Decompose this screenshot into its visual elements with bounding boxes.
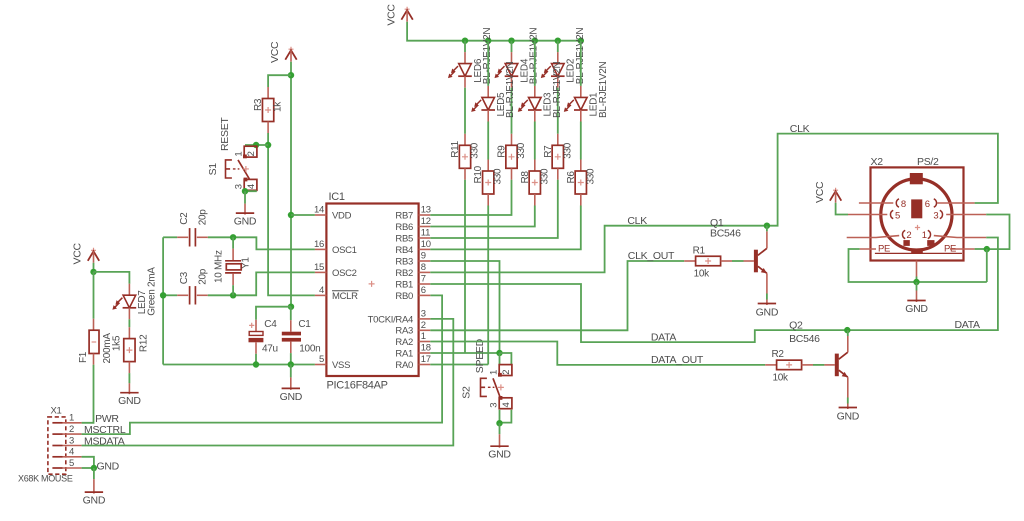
junction LED rail — [578, 38, 584, 44]
svg-text:RB0: RB0 — [395, 291, 413, 302]
svg-text:GND: GND — [83, 495, 106, 507]
wire rail to LED2 — [557, 41, 559, 52]
svg-text:100n: 100n — [299, 344, 320, 355]
junction S1 pin2 — [253, 142, 259, 148]
pin R2 right — [802, 364, 813, 366]
wire VCC rail for LEDs — [407, 22, 581, 41]
svg-text:R10: R10 — [473, 165, 484, 183]
wire VDD rail down to C1 — [290, 215, 292, 307]
transistor Q1 — [754, 248, 767, 273]
svg-text:GND: GND — [234, 216, 257, 228]
wire CLK_OUT: RA3 to R1 — [430, 261, 684, 330]
pin LED2 anode — [557, 52, 559, 64]
svg-text:8: 8 — [421, 262, 426, 273]
svg-text:10k: 10k — [773, 372, 790, 383]
junction shield — [984, 246, 990, 252]
pin 14 VDD — [314, 205, 352, 222]
svg-text:R6: R6 — [566, 171, 577, 184]
resistor R12 — [112, 334, 150, 362]
svg-text:5: 5 — [895, 210, 900, 221]
pin R3 top — [267, 87, 269, 99]
svg-text:20p: 20p — [198, 209, 209, 226]
resistor R3 — [253, 98, 284, 121]
junction C1/C4 — [288, 304, 294, 310]
svg-text:1: 1 — [421, 331, 426, 342]
svg-text:Q2: Q2 — [789, 320, 803, 332]
svg-text:X1: X1 — [51, 406, 62, 417]
junction C1/ground — [288, 361, 294, 367]
wire rail to LED5 — [487, 41, 489, 86]
ground below R12 — [118, 383, 141, 407]
pin LED7 anode — [128, 284, 130, 296]
svg-text:BL-RJE1V2N: BL-RJE1V2N — [505, 61, 516, 118]
svg-text:11: 11 — [421, 228, 430, 239]
pin F1 top — [93, 319, 95, 331]
junction shield ground — [913, 279, 919, 285]
pin R11 top — [464, 134, 466, 146]
pin LED3 cathode — [534, 110, 536, 122]
pin R1 right — [721, 260, 732, 262]
pin R9 top — [511, 134, 513, 146]
pin X2-5 — [848, 210, 900, 221]
wire LED2 to R7 — [557, 88, 559, 134]
pin Q2 base — [824, 364, 834, 366]
svg-text:BL-RJE1V2N: BL-RJE1V2N — [552, 61, 563, 118]
pin R10 top — [487, 160, 489, 172]
wire C4 to ground row — [255, 354, 257, 365]
junction R3/S1 — [265, 142, 271, 148]
svg-text:4: 4 — [69, 447, 74, 458]
wire F1 to X1 pin1 (PWR) — [82, 365, 94, 423]
svg-text:RB5: RB5 — [395, 233, 413, 244]
svg-text:R8: R8 — [520, 171, 531, 184]
svg-text:Y1: Y1 — [241, 257, 252, 269]
pin 18 RA1 — [395, 343, 430, 360]
pin X1-4 — [52, 447, 81, 458]
svg-text:VCC: VCC — [269, 41, 281, 63]
pin LED1 cathode — [580, 110, 582, 122]
svg-text:CLK: CLK — [627, 215, 647, 227]
wire S1 pin4 to ground — [245, 189, 256, 192]
pin LED3 anode — [534, 86, 536, 98]
pin LED2 cathode — [557, 76, 559, 88]
svg-text:RB4: RB4 — [395, 245, 413, 256]
wire rail to LED1 — [580, 41, 582, 86]
svg-text:14: 14 — [314, 205, 324, 216]
svg-text:1: 1 — [233, 152, 244, 157]
wire C3 to OSC2 — [208, 272, 315, 295]
ground below S2 — [488, 423, 511, 461]
pin X1-2 — [52, 424, 81, 435]
pin LED1 anode — [580, 86, 582, 98]
capacitor C4 electrolytic — [249, 319, 278, 355]
resistor R1 — [693, 245, 721, 279]
wire X1 pin5 to ground — [82, 467, 94, 469]
pin 6 RB0 — [395, 285, 430, 302]
fuse F1 — [78, 330, 113, 363]
svg-text:BC546: BC546 — [789, 333, 820, 345]
VCC symbol above R3 — [269, 41, 297, 63]
pin LED4 anode — [511, 52, 513, 64]
svg-text:C1: C1 — [298, 319, 311, 330]
svg-text:16: 16 — [314, 239, 324, 250]
wire X2 shield frame — [975, 248, 987, 250]
pin X2 shield — [916, 261, 918, 277]
resistor R2 — [772, 349, 802, 383]
wire X1 pin4 to ground — [82, 457, 94, 468]
wire shield to ground — [916, 277, 918, 283]
wire CLK: RB2 to X2 pin6 and Q1 collector — [430, 134, 998, 273]
wire C2 row to OSC1 — [208, 237, 315, 249]
svg-text:15: 15 — [314, 262, 324, 273]
junction LED rail — [462, 38, 468, 44]
svg-text:VCC: VCC — [72, 243, 84, 265]
pin R7 bottom — [557, 168, 559, 180]
svg-text:X68K MOUSE: X68K MOUSE — [18, 474, 73, 484]
wire rail to LED4 — [511, 41, 513, 52]
svg-text:RB1: RB1 — [395, 279, 413, 290]
pin 12 RB6 — [395, 216, 430, 233]
junction VCC/R3 — [288, 72, 294, 78]
svg-text:C3: C3 — [179, 271, 190, 284]
junction Q2 collector/DATA — [844, 327, 850, 333]
svg-text:17: 17 — [421, 354, 431, 365]
svg-text:GND: GND — [756, 307, 779, 319]
svg-text:CLK: CLK — [790, 123, 810, 135]
wire LED5 to R10 — [487, 122, 489, 160]
junction C3/Y1 bottom — [230, 292, 236, 298]
svg-text:3: 3 — [233, 184, 244, 189]
wire R10 to RA0 row — [487, 206, 489, 365]
wire S1 pin2 to R3 net — [245, 144, 268, 146]
wire MSDATA: X1 pin3 to RA4 — [82, 319, 454, 446]
junction C2/Y1 top — [230, 234, 236, 240]
wire Q2 collector to DATA — [847, 330, 849, 336]
wire Q1 collector to CLK — [766, 226, 768, 232]
svg-text:3: 3 — [69, 435, 74, 446]
svg-text:330: 330 — [470, 142, 481, 159]
VCC symbol LED rail — [385, 4, 413, 26]
wire DATA_OUT: RA2 to R2 — [430, 342, 765, 365]
svg-text:VDD: VDD — [332, 210, 352, 221]
pin R6 top — [580, 160, 582, 172]
pin 7 RB1 — [395, 274, 430, 291]
svg-text:DATA: DATA — [955, 319, 981, 331]
pin C4 bottom — [255, 342, 257, 354]
svg-text:5: 5 — [69, 458, 74, 469]
LED LED3 — [518, 61, 563, 118]
ground below X1 — [83, 468, 106, 507]
svg-text:330: 330 — [562, 142, 573, 159]
wire LED1 to R6 — [580, 122, 582, 160]
wire LED3 to R8 — [534, 122, 536, 160]
svg-text:13: 13 — [421, 205, 431, 216]
LED LED2 — [541, 28, 586, 85]
pin 1 RA2 — [395, 331, 430, 348]
wire Y1 bottom — [232, 285, 234, 295]
svg-text:R3: R3 — [253, 98, 264, 111]
svg-text:R11: R11 — [450, 140, 461, 157]
crystal Y1 — [213, 250, 251, 283]
svg-text:GND: GND — [488, 449, 511, 461]
svg-text:18: 18 — [421, 343, 431, 354]
pin Q1 collector — [766, 231, 768, 248]
junction RB3/RA1/S2 — [496, 350, 502, 356]
svg-text:RA3: RA3 — [395, 326, 413, 337]
VCC symbol near F1 — [72, 243, 100, 265]
connector X1 X68K MOUSE — [18, 406, 73, 484]
svg-text:6: 6 — [925, 199, 930, 210]
svg-text:4: 4 — [319, 285, 324, 296]
svg-text:1: 1 — [922, 230, 927, 241]
wire rail to C2 — [163, 236, 177, 238]
svg-text:BC546: BC546 — [710, 227, 741, 239]
resistor R8 — [520, 168, 551, 194]
wire VCC to F1/LED7 junction — [93, 263, 95, 272]
ground below Q1 — [756, 300, 779, 319]
pin X2-3 — [933, 210, 986, 221]
pin Q1 base — [744, 260, 754, 262]
svg-text:20p: 20p — [198, 268, 209, 285]
pin 3 T0CKI/RA4 — [368, 308, 431, 325]
svg-text:VCC: VCC — [385, 4, 397, 26]
svg-text:OSC1: OSC1 — [332, 245, 357, 256]
svg-text:GND: GND — [280, 391, 303, 403]
pin Y1 bottom — [232, 274, 234, 286]
wire VDD to IC pin 14 — [291, 214, 315, 216]
resistor R7 — [543, 142, 574, 168]
pin F1 bottom — [93, 354, 95, 365]
wire VCC to fuse F1 — [93, 272, 95, 319]
svg-text:7: 7 — [421, 274, 426, 285]
VCC symbol at X2 — [814, 181, 841, 203]
svg-text:R7: R7 — [543, 145, 554, 158]
pin 10 RB4 — [395, 239, 430, 256]
junction S2 ground — [496, 420, 502, 426]
LED LED4 — [495, 28, 540, 85]
pin LED7 cathode — [128, 308, 130, 320]
pin X1-5 — [52, 458, 81, 469]
svg-text:1k5: 1k5 — [112, 335, 123, 351]
junction LED rail — [532, 38, 538, 44]
junction C4/ground — [253, 361, 259, 367]
pin X1-1 — [52, 413, 81, 424]
IC U IC1 PIC16F84AP — [326, 191, 418, 392]
svg-text:RA1: RA1 — [395, 348, 413, 359]
wire RB5 to R7 — [430, 180, 558, 238]
pin X2-PE right — [950, 248, 975, 250]
wire left ground rail — [162, 237, 164, 364]
wire C3 row — [163, 294, 177, 296]
svg-text:RA2: RA2 — [395, 337, 413, 348]
svg-text:Green 2mA: Green 2mA — [146, 267, 157, 316]
svg-text:R2: R2 — [772, 349, 785, 360]
wire X2 pin3 to shield — [986, 215, 1009, 250]
wire rail to LED3 — [534, 41, 536, 86]
wire LED7 to R12 — [128, 319, 130, 327]
wire R1 to Q1 base — [732, 260, 744, 262]
pin 13 RB7 — [395, 205, 430, 222]
wire C4 branch — [256, 307, 291, 320]
pin 4 MCLR — [315, 285, 359, 302]
junction LED rail — [555, 38, 561, 44]
svg-text:2: 2 — [501, 370, 512, 375]
pin LED5 anode — [487, 86, 489, 98]
pin R8 top — [534, 160, 536, 172]
pin X2-PE left — [860, 248, 876, 250]
resistor R6 — [566, 168, 597, 194]
pin R10 bottom — [487, 194, 489, 206]
wire R11 to RA1 row — [464, 180, 466, 353]
svg-text:GND: GND — [97, 460, 120, 472]
wire RB7 to R9 — [430, 180, 511, 215]
connector X2 PS/2 — [871, 156, 964, 261]
transistor Q2 — [835, 352, 848, 377]
svg-text:R1: R1 — [693, 245, 706, 256]
pin 9 RB3 — [395, 251, 430, 268]
wire S2 feed — [500, 353, 512, 365]
pin Q2 collector — [847, 336, 849, 352]
pin 15 OSC2 — [314, 262, 357, 279]
svg-text:BL-RJE1V2N: BL-RJE1V2N — [598, 61, 609, 118]
junction X1 ground — [91, 465, 97, 471]
svg-text:RB6: RB6 — [395, 222, 413, 233]
svg-text:3: 3 — [488, 403, 499, 408]
svg-text:RB2: RB2 — [395, 268, 413, 279]
pin R1 left — [684, 260, 695, 262]
ground below Q2 — [837, 404, 860, 423]
svg-text:1k: 1k — [273, 101, 284, 112]
svg-text:MCLR: MCLR — [332, 291, 358, 302]
capacitor C3 — [177, 268, 208, 304]
wire Q2 emitter to ground — [847, 398, 849, 404]
svg-text:10 MHz: 10 MHz — [213, 250, 224, 283]
wire R12 to ground — [128, 373, 130, 383]
wire ground row to VSS — [163, 364, 315, 366]
wire RB4 to R6 — [430, 206, 581, 250]
switch S2 — [481, 365, 513, 409]
svg-text:10: 10 — [421, 239, 431, 250]
svg-text:GND: GND — [905, 303, 928, 315]
svg-text:GND: GND — [118, 395, 141, 407]
pin R9 bottom — [511, 168, 513, 180]
wire R2 to Q2 base — [813, 364, 824, 366]
svg-text:3: 3 — [933, 210, 938, 221]
svg-text:2: 2 — [69, 424, 74, 435]
svg-text:4: 4 — [501, 403, 512, 408]
pin R3 bottom — [267, 122, 269, 134]
junction VCC/F1/LED7 — [90, 269, 96, 275]
svg-text:CLK_OUT: CLK_OUT — [628, 250, 675, 262]
svg-text:330: 330 — [539, 168, 550, 185]
pin X2-1 — [922, 230, 986, 241]
pin 11 RB5 — [395, 228, 430, 245]
wire VCC to X2 pin5 — [836, 203, 848, 215]
wire DATA: RB1 to X2 pin1 and Q2 collector — [430, 238, 998, 343]
pin Q1 emitter — [766, 273, 768, 293]
svg-text:1: 1 — [488, 370, 499, 375]
svg-text:C2: C2 — [179, 212, 190, 225]
pin X2-8 — [859, 199, 906, 210]
ground below S1 — [234, 191, 257, 227]
junction LED rail — [508, 38, 514, 44]
pin Q2 emitter — [847, 377, 849, 397]
svg-text:6: 6 — [421, 285, 426, 296]
LED LED6 — [448, 28, 493, 85]
pin 8 RB2 — [395, 262, 430, 279]
svg-text:SPEED: SPEED — [474, 338, 486, 373]
resistor R9 — [497, 142, 528, 168]
wire LED4 to R9 — [511, 88, 513, 134]
svg-text:200mA: 200mA — [102, 333, 113, 364]
wire Q1 emitter to ground — [766, 294, 768, 300]
svg-text:2: 2 — [906, 230, 911, 241]
pin LED6 cathode — [464, 76, 466, 88]
svg-text:DATA: DATA — [651, 332, 677, 344]
junction VDD — [288, 212, 294, 218]
pin Y1 top — [232, 249, 234, 260]
wire RA1 to S2 — [430, 352, 499, 354]
svg-text:10k: 10k — [694, 269, 711, 280]
pin R6 bottom — [580, 194, 582, 206]
pin LED4 cathode — [511, 76, 513, 88]
wire VCC to R3 — [268, 75, 291, 87]
svg-text:S1: S1 — [207, 163, 219, 176]
svg-text:S2: S2 — [461, 386, 473, 399]
pin R8 bottom — [534, 194, 536, 206]
pin R7 top — [557, 134, 559, 146]
svg-text:2: 2 — [246, 151, 257, 156]
junction rail/C3 — [160, 292, 166, 298]
svg-text:DATA_OUT: DATA_OUT — [651, 354, 704, 366]
svg-text:330: 330 — [516, 142, 527, 159]
wire RB3 down to S2 — [430, 261, 499, 353]
resistor R11 — [450, 140, 481, 168]
svg-text:3: 3 — [421, 308, 426, 319]
svg-text:47u: 47u — [262, 344, 278, 355]
svg-text:RB7: RB7 — [395, 210, 413, 221]
svg-text:VSS: VSS — [332, 360, 350, 371]
pin R12 top — [128, 327, 130, 338]
svg-text:F1: F1 — [78, 351, 89, 363]
svg-text:PWR: PWR — [95, 413, 119, 425]
svg-text:2: 2 — [421, 320, 426, 331]
switch S1 — [226, 146, 258, 190]
svg-text:12: 12 — [421, 216, 431, 227]
svg-text:T0CKI/RA4: T0CKI/RA4 — [368, 314, 413, 325]
pin 16 OSC1 — [314, 239, 357, 256]
svg-text:4: 4 — [246, 184, 257, 189]
capacitor C1 — [282, 307, 321, 365]
svg-text:VCC: VCC — [814, 181, 826, 203]
svg-text:330: 330 — [493, 168, 504, 185]
pin LED6 anode — [464, 52, 466, 64]
pin LED5 cathode — [487, 110, 489, 122]
wire to LED7 — [94, 272, 130, 284]
ground below X2 — [905, 282, 928, 315]
svg-text:OSC2: OSC2 — [332, 268, 357, 279]
LED LED7 — [112, 267, 157, 316]
pin R12 bottom — [128, 362, 130, 374]
wire R3 to S1 and MCLR — [268, 133, 315, 295]
junction LED rail — [485, 38, 491, 44]
wire RB6 to R8 — [430, 206, 535, 227]
wire RA0 to R10 — [430, 364, 488, 366]
svg-text:IC1: IC1 — [329, 191, 345, 203]
ground below C1 — [280, 365, 303, 403]
pin 2 RA3 — [395, 320, 430, 337]
pin X1-3 — [52, 435, 81, 446]
